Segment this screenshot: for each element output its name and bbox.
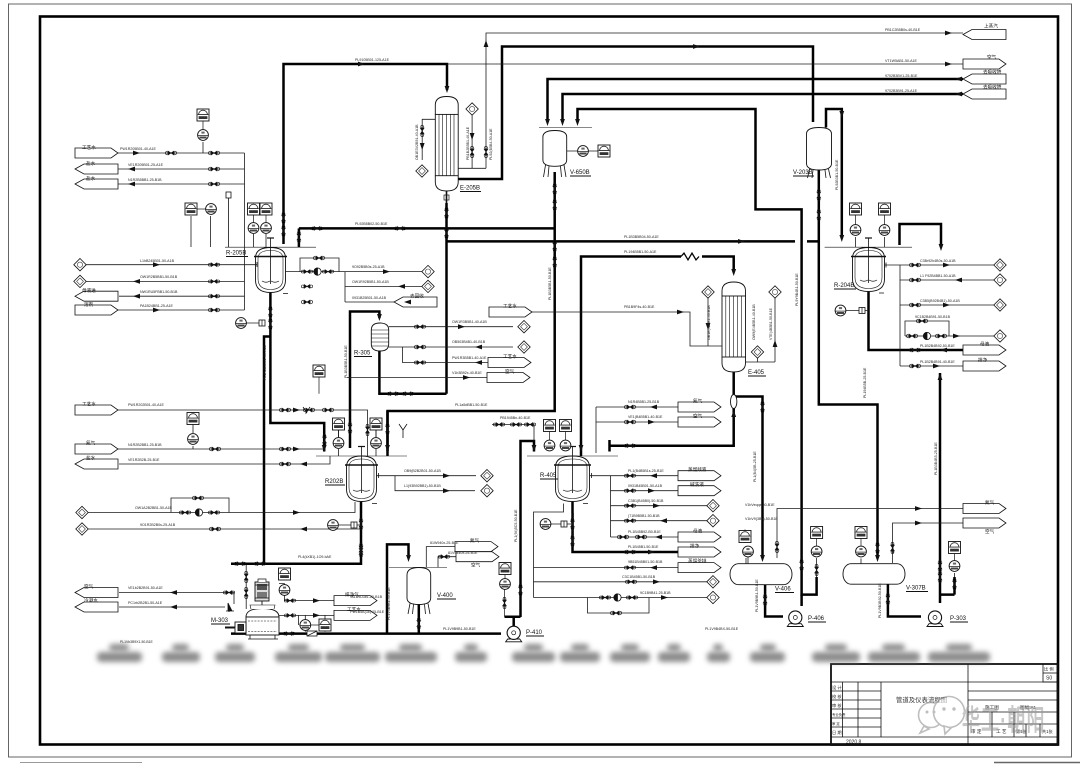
svg-text:VT1W5AB1-50-A1E: VT1W5AB1-50-A1E	[885, 59, 918, 63]
svg-text:OW1A2B2BB1-50-A1E: OW1A2B2BB1-50-A1E	[135, 506, 173, 510]
svg-text:P-410: P-410	[526, 630, 543, 636]
tags M-303 right	[334, 596, 377, 606]
horizontal drum V-307B	[843, 564, 905, 585]
svg-text:去吸收塔: 去吸收塔	[983, 69, 1002, 76]
wire P-410 jog	[505, 617, 521, 626]
wire R-405 bottom to tag	[573, 502, 679, 552]
tag 溶剂	[75, 305, 118, 315]
svg-text:PL1V4B9B1-40-B1E: PL1V4B9B1-40-B1E	[387, 587, 391, 620]
svg-text:工艺水: 工艺水	[82, 144, 96, 150]
instrument R-205B bottom	[236, 318, 247, 329]
svg-text:NW1RU5FBB1-50-B1B: NW1RU5FBB1-50-B1B	[140, 290, 178, 294]
instruments V-406	[743, 546, 754, 557]
wire P-406 instrument stack	[746, 558, 817, 577]
svg-text:VE1(B4B5B1-40-B1E: VE1(B4B5B1-40-B1E	[628, 415, 663, 419]
svg-text:PL92(B5B4-50-A1E: PL92(B5B4-50-A1E	[489, 128, 493, 160]
diamond R-405 drain line 1	[707, 576, 719, 588]
svg-text:PL1R2B5B01-50-A1E: PL1R2B5B01-50-A1E	[263, 344, 267, 380]
svg-text:L1hB245B01-50-A1B: L1hB245B01-50-A1B	[140, 259, 175, 263]
svg-text:排净: 排净	[690, 543, 700, 550]
wire R-204B bottoms to tag	[869, 292, 964, 350]
wire R202B right outlets	[377, 476, 477, 491]
svg-text:V1bVeqqx-50-B1E: V1bVeqqx-50-B1E	[745, 503, 775, 507]
wire y=228.4 line	[299, 227, 555, 230]
tick marks nozzles	[257, 262, 886, 504]
heat exchanger E-205B	[435, 97, 458, 204]
svg-text:V1b3B92x-40-B1E: V1b3B92x-40-B1E	[452, 371, 482, 375]
watermark	[919, 697, 1046, 738]
reactor R-205B	[254, 238, 287, 293]
horizontal drum V-406	[730, 564, 792, 585]
svg-text:PL1B2B4B91-40-B1E: PL1B2B4B91-40-B1E	[920, 360, 955, 364]
svg-text:V-307B: V-307B	[906, 586, 926, 592]
svg-text:审 核: 审 核	[832, 702, 842, 709]
expansion zigzag	[681, 253, 699, 260]
svg-text:OB503B4B1-40-B1B: OB503B4B1-40-B1B	[452, 340, 486, 344]
tag 去吸收塔2	[963, 89, 1006, 99]
svg-text:0931B25B01-50-A1B: 0931B25B01-50-A1B	[352, 296, 387, 300]
wire 工艺水 R202B line y=410	[118, 410, 368, 456]
wire R-204B bottom instrument	[846, 310, 869, 312]
wire V-307B bottom to P-303	[888, 583, 921, 617]
svg-text:PL1V9B4BX-50-B1E: PL1V9B4BX-50-B1E	[705, 627, 739, 631]
tag 回流	[75, 459, 118, 469]
tags R-405 right	[678, 471, 721, 481]
wire R-305 bottom to E-205B downcomer	[379, 351, 446, 394]
tag 工艺水 R305	[488, 358, 531, 368]
wire R202B feed riser from y411	[386, 411, 389, 456]
tag 去吸收塔1	[963, 74, 1006, 84]
wire left feed line3 y=184	[118, 183, 245, 185]
instrument M-303	[279, 568, 291, 580]
svg-text:蒸馏釜排: 蒸馏釜排	[688, 558, 707, 565]
svg-text:PA1B24BB1-25-A1E: PA1B24BB1-25-A1E	[140, 304, 173, 308]
wire E-205B left sample	[422, 119, 435, 160]
svg-text:氮气: 氮气	[693, 398, 703, 405]
wire R-205B right recycle loop	[286, 258, 423, 272]
vessel V-650B	[539, 128, 592, 178]
wire V-400 feed loop	[387, 544, 409, 633]
wire R-405 bottom instrument	[551, 523, 573, 525]
wire R-205B feed lines	[86, 264, 257, 266]
wire P-303 riser	[940, 373, 955, 603]
svg-text:V1bV9(3Bq)-50-B1E: V1bV9(3Bq)-50-B1E	[745, 517, 778, 521]
wire 工艺水 R-405 y=424.5	[492, 425, 534, 442]
svg-text:专业负责: 专业负责	[832, 712, 846, 717]
tags R-405 top	[678, 402, 721, 412]
fitting stub above R-205B	[226, 192, 231, 247]
tag 盐水	[75, 164, 118, 174]
svg-text:比 例: 比 例	[1044, 666, 1054, 673]
diamond R202B out right 2	[481, 485, 493, 497]
svg-text:PL9Y9B4B1-50-B1E: PL9Y9B4B1-50-B1E	[795, 273, 799, 306]
tag 上回收 top right	[963, 30, 1006, 40]
svg-text:PL1(B4B5B1-50-B1E: PL1(B4B5B1-50-B1E	[571, 512, 575, 547]
svg-text:9702B3BV1-25-B1E: 9702B3BV1-25-B1E	[885, 74, 918, 78]
instrument R-405 bottom	[540, 519, 551, 530]
svg-text:PL1(B4)5B-25-B1E: PL1(B4)5B-25-B1E	[753, 451, 757, 482]
svg-text:PL1V9B9B1-50-B1E: PL1V9B9B1-50-B1E	[443, 627, 476, 631]
tag 工艺水 R205B	[75, 148, 118, 158]
instruments R202B top	[333, 418, 345, 430]
svg-text:E-205B: E-205B	[460, 186, 480, 192]
svg-text:去回收: 去回收	[410, 293, 424, 300]
svg-text:工艺水: 工艺水	[503, 303, 517, 309]
wire branch to M-303	[264, 337, 270, 564]
svg-text:空气: 空气	[505, 368, 515, 374]
tag 空气 R305	[487, 373, 530, 383]
pump P-410	[506, 626, 522, 642]
wire V-406 bottom to P-406	[765, 584, 783, 617]
diamond feed2	[74, 275, 86, 287]
svg-text:PL92B3B1-50-B1E: PL92B3B1-50-B1E	[835, 159, 839, 190]
wire R-204B jumper	[900, 224, 942, 247]
wire V-400 bottom drop	[418, 604, 421, 634]
tags M-303	[75, 588, 118, 598]
svg-text:9B51B45B01-50-B1B: 9B51B45B01-50-B1B	[628, 560, 663, 564]
svg-text:蒸馏残液: 蒸馏残液	[688, 466, 707, 473]
check valve M-303 line	[226, 603, 234, 611]
svg-text:OB9(B2B2B01-50-A1B: OB9(B2B2B01-50-A1B	[404, 469, 441, 473]
svg-text:PL1B2B4B92-50-B1E: PL1B2B4B92-50-B1E	[920, 344, 955, 348]
svg-text:R-305: R-305	[354, 351, 371, 357]
instrument R202B bottom	[328, 520, 339, 531]
tags 氮气/空气 V-400	[455, 542, 498, 552]
wire y=241.4 long line	[447, 240, 819, 243]
svg-text:盐水: 盐水	[86, 455, 96, 461]
svg-text:E-405: E-405	[748, 370, 765, 376]
svg-text:N1R4B5B1-25-B1B: N1R4B5B1-25-B1B	[628, 400, 660, 404]
wire V-650B instruments	[567, 150, 598, 152]
svg-text:V-400: V-400	[437, 593, 453, 599]
svg-text:C3C1B45B1-50-B1B: C3C1B45B1-50-B1B	[622, 575, 656, 579]
wire 上回 pennant line to E-405	[532, 312, 722, 346]
diamond LI feed1	[74, 259, 86, 271]
wire V-203B vapor to R-204B	[826, 109, 842, 238]
bottom paper lines	[20, 762, 142, 764]
svg-text:PB1B2B5B1-40-A1E: PB1B2B5B1-40-A1E	[466, 126, 470, 160]
instruments V-307B	[856, 546, 867, 557]
svg-text:PB1B9F4s-40-B1E: PB1B9F4s-40-B1E	[624, 305, 655, 309]
reactor R202B	[345, 447, 378, 502]
svg-text:溶剂: 溶剂	[84, 301, 94, 308]
wire E-205B right nozzles	[458, 114, 486, 169]
svg-text:81V9440x-25-B1E: 81V9440x-25-B1E	[448, 551, 478, 555]
instrument cluster R-205B top-left	[185, 203, 197, 215]
tag 空气	[963, 59, 1006, 69]
instrument left of R202B line	[187, 413, 199, 425]
svg-text:OB1E3V2B91-40-A1B: OB1E3V2B91-40-A1B	[415, 124, 419, 160]
svg-text:PL1V9B9B1-50-B1E: PL1V9B9B1-50-B1E	[755, 579, 759, 612]
wire V-406 top instruments	[745, 530, 777, 564]
svg-text:V-406: V-406	[775, 587, 791, 593]
svg-text:空气: 空气	[987, 54, 997, 60]
wire P-410 discharge riser	[521, 441, 535, 617]
svg-text:9O92B5B0s-25-A1B: 9O92B5B0s-25-A1B	[352, 265, 385, 269]
svg-text:OB1E(4B5B1-40-B1B: OB1E(4B5B1-40-B1B	[707, 305, 711, 340]
instrument pair above R-205B	[248, 203, 260, 215]
wire feed y=449	[118, 448, 325, 450]
diamond R-405 drain line 2	[707, 591, 719, 603]
svg-text:V7E(4B5B1-50-B1E: V7E(4B5B1-50-B1E	[769, 307, 773, 340]
wire V-650B top line3 over to P-406	[578, 109, 817, 595]
svg-text:工艺水: 工艺水	[503, 353, 517, 359]
wire left feed line1 y=153	[118, 152, 245, 154]
wire y=464 line	[119, 456, 330, 464]
diamond y529	[76, 523, 88, 535]
svg-text:PL92B5B02-50-B1E: PL92B5B02-50-B1E	[355, 222, 388, 226]
svg-text:PL1B3B4B5-25-B1E: PL1B3B4B5-25-B1E	[934, 442, 938, 475]
svg-text:9C1B2B4B91-50-B1B: 9C1B2B4B91-50-B1B	[915, 315, 951, 319]
svg-text:PB1945Bn-40-B1E: PB1945Bn-40-B1E	[500, 416, 531, 420]
svg-text:上蒸汽: 上蒸汽	[984, 23, 998, 30]
reactor R-204B	[851, 238, 886, 292]
svg-text:母液: 母液	[693, 528, 703, 535]
svg-text:OW1R3B5B1-40-A1B: OW1R3B5B1-40-A1B	[452, 320, 487, 324]
svg-text:OW1R92B5B1-50-A1B: OW1R92B5B1-50-A1B	[352, 280, 389, 284]
wire R-204B outlets	[885, 265, 995, 366]
svg-text:PL1V9B3B92-50-B1E: PL1V9B3B92-50-B1E	[878, 583, 882, 618]
svg-text:氮气: 氮气	[985, 499, 995, 506]
svg-text:氮气: 氮气	[470, 537, 480, 544]
instruments P-406 riser	[811, 527, 823, 539]
instrument near V-400	[499, 563, 511, 575]
svg-text:P-406: P-406	[808, 616, 825, 622]
wire instrument stems R-204B	[856, 237, 885, 247]
svg-text:氮气: 氮气	[86, 440, 96, 447]
wire y=529 line	[88, 528, 361, 530]
svg-text:N1R2B2BB1-25-B1B: N1R2B2BB1-25-B1B	[128, 443, 162, 447]
svg-text:PL1B3B5B1-50-B1E: PL1B3B5B1-50-B1E	[344, 345, 348, 378]
wire M-303 bottom discharge to P-410	[231, 632, 501, 635]
wire E-205B bottoms to V-203B feed	[458, 47, 813, 180]
svg-text:校 核: 校 核	[832, 693, 842, 700]
svg-text:9702B3B91-25-A1E: 9702B3B91-25-A1E	[885, 89, 918, 93]
svg-text:R-405: R-405	[540, 473, 557, 479]
wire top vent line y=33	[486, 33, 963, 150]
instruments R-204B top	[850, 203, 862, 215]
svg-text:C3B1(B45B0)-50-B1B: C3B1(B45B0)-50-B1B	[628, 499, 664, 503]
wire M-303 top feed stub	[264, 562, 361, 565]
wire instrument stems R202B	[193, 424, 376, 456]
wire R-205B bottoms	[270, 293, 324, 452]
svg-text:S0: S0	[1046, 676, 1052, 682]
wire y=512.5 line with loop	[88, 498, 355, 513]
svg-text:VE1b2B2B91-50-A1E: VE1b2B2B91-50-A1E	[128, 586, 163, 590]
diamond R205B out1	[422, 265, 434, 277]
diamond E205B right top	[466, 103, 478, 115]
blurred bottom annotation strip	[109, 644, 129, 651]
svg-text:PL194B5B-25-B1E: PL194B5B-25-B1E	[863, 367, 867, 398]
svg-text:空气: 空气	[693, 413, 703, 419]
wire V-203B drain to V-307B	[819, 170, 878, 558]
diamond R202B out right 1	[481, 470, 493, 482]
reactor R-405	[554, 447, 591, 502]
wire instrument stems R205B	[191, 142, 266, 247]
vessel V-203B	[807, 128, 832, 179]
wire R202B bottom instrument	[339, 524, 361, 526]
svg-text:OW1R2B5BB1-50-B1B: OW1R2B5BB1-50-B1B	[140, 275, 178, 279]
svg-text:华工·朝阳: 华工·朝阳	[962, 703, 1046, 737]
thick line arrows	[445, 86, 450, 93]
wire left feed line2 y=169	[118, 168, 245, 170]
svg-text:空气: 空气	[84, 583, 94, 589]
small column R-305	[371, 323, 388, 351]
diamonds R305 lines	[518, 321, 530, 333]
tag 上回 to E405	[489, 307, 532, 317]
svg-text:碱洗液: 碱洗液	[690, 481, 704, 488]
diamond E205B left	[416, 165, 428, 177]
svg-text:PL194B5B1-50-A1E: PL194B5B1-50-A1E	[624, 250, 657, 254]
wire 氮气 drum lines	[777, 509, 963, 564]
pump P-406	[787, 611, 803, 627]
svg-text:PL9105B01-125-A1E: PL9105B01-125-A1E	[355, 58, 390, 62]
wire R202B bottom to M-303 line	[231, 502, 361, 564]
svg-text:9O1R2B2B0s-25-A1B: 9O1R2B2B0s-25-A1B	[140, 523, 176, 527]
wire V-307B top instruments	[861, 544, 893, 564]
instruments R-405 top	[544, 420, 556, 432]
wire V-650B top line 1 to tag	[548, 79, 964, 122]
svg-text:母液: 母液	[980, 341, 990, 348]
wire E-405 branch to V-406	[734, 397, 763, 559]
svg-text:空气: 空气	[985, 528, 995, 534]
tag 氮气 R202B	[75, 444, 118, 454]
svg-text:M-303: M-303	[211, 618, 229, 624]
instrument square below R-305	[313, 365, 325, 377]
svg-text:审 定: 审 定	[832, 721, 840, 726]
wire R-305 side lines	[347, 327, 513, 378]
tag 母液进	[75, 291, 118, 301]
wire E-405 side lines	[708, 292, 775, 362]
wire R-405 pennant lines	[534, 407, 708, 613]
svg-text:PW1R205B01-40-A1E: PW1R205B01-40-A1E	[120, 147, 157, 151]
diamonds/tags R-204B right	[994, 259, 1006, 271]
wire V-650B top line 2 to tag	[563, 94, 964, 122]
svg-text:日 期: 日 期	[832, 730, 842, 736]
inline trap on E-405 bottom line	[731, 395, 737, 409]
svg-text:PW1B5B(3b)-25-B1E: PW1B5B(3b)-25-B1E	[350, 610, 385, 614]
svg-text:2020.8: 2020.8	[846, 740, 862, 746]
wire E-205B bottom drain down	[445, 203, 448, 394]
wire left header drop x=244.5	[244, 153, 246, 310]
svg-text:V-203B: V-203B	[793, 170, 813, 176]
svg-text:PL1(B4B5B1s-25-B1E: PL1(B4B5B1s-25-B1E	[628, 469, 664, 473]
instruments P-303 riser	[949, 542, 961, 554]
svg-text:VE1R2B2B-25-B1E: VE1R2B2B-25-B1E	[128, 458, 160, 462]
svg-text:PW1R202B01-40-A1E: PW1R202B01-40-A1E	[128, 403, 165, 407]
diamond R205B out2	[422, 280, 434, 292]
svg-text:空气: 空气	[471, 562, 481, 568]
wire R-405 vapor to E-405 with expansion loop	[581, 257, 734, 457]
wire misc crossing breaks	[446, 227, 448, 229]
svg-text:PL1B3B5B1-50-B1E: PL1B3B5B1-50-B1E	[548, 267, 552, 300]
wire riser R-205B to y228 header	[298, 228, 301, 247]
Y strainer R202B	[399, 424, 407, 438]
wire E-405 bottom to tee	[610, 372, 734, 452]
svg-text:去吸收塔: 去吸收塔	[983, 84, 1002, 91]
wire M-303 lines	[119, 565, 334, 632]
svg-text:盐水: 盐水	[86, 160, 96, 166]
svg-text:设 计: 设 计	[832, 684, 842, 691]
svg-text:VE1R205B01-25-A1E: VE1R205B01-25-A1E	[128, 163, 164, 167]
wire thin y=64 to tag2	[447, 63, 963, 65]
tag 4BBh	[394, 297, 437, 307]
svg-text:V-650B: V-650B	[570, 170, 590, 176]
diamond y512	[76, 506, 88, 518]
wire R-305 feed from R202B riser	[350, 312, 379, 449]
wire P-303 instrument stack	[954, 573, 956, 577]
svg-text:0931B45B01-50-A1B: 0931B45B01-50-A1B	[628, 484, 663, 488]
svg-text:81W940x-25-B1E: 81W940x-25-B1E	[430, 541, 459, 545]
wire V-400 top line	[425, 546, 427, 548]
svg-text:R-205B: R-205B	[226, 251, 246, 257]
wire 氮气/空气 V-400	[426, 547, 456, 568]
tag 工艺水 R202B	[75, 405, 118, 415]
tags 氮气 bottom right	[963, 504, 1006, 514]
instrument V-650B	[578, 146, 589, 157]
svg-text:P-303: P-303	[950, 616, 967, 622]
svg-text:L1(93B92BB1)-50-B1B: L1(93B92BB1)-50-B1B	[404, 484, 441, 488]
svg-text:PL4(kXB1)-1O9-bAE: PL4(kXB1)-1O9-bAE	[298, 555, 332, 559]
filter dryer M-303	[225, 579, 279, 639]
svg-text:9C1B9B41-25-B1B: 9C1B9B41-25-B1B	[640, 591, 671, 595]
wire R-205B overhead to E-205B	[284, 64, 448, 244]
instrument R-204B bottom	[835, 305, 846, 316]
svg-text:OW9(E4B5B1-40-B1B: OW9(E4B5B1-40-B1B	[752, 304, 756, 340]
svg-text:L1 F92B4BB1-50-A1B: L1 F92B4BB1-50-A1B	[920, 274, 956, 278]
wire P-406 drop	[800, 595, 803, 606]
svg-text:C3B5(B92B4B1)-50-A1B: C3B5(B92B4B1)-50-A1B	[920, 299, 960, 303]
tag 盐水回	[75, 179, 118, 189]
wire V-650B downcomer to R202B	[388, 172, 555, 451]
svg-text:PL1B3B5B04-50-A1E: PL1B3B5B04-50-A1E	[624, 235, 659, 239]
svg-text:母液进: 母液进	[82, 287, 96, 294]
svg-text:R202B: R202B	[325, 479, 343, 485]
svg-text:C3Br92h4B0s-50-A1B: C3Br92h4B0s-50-A1B	[920, 259, 956, 263]
svg-text:排净: 排净	[978, 357, 988, 364]
svg-text:工艺水: 工艺水	[82, 401, 96, 407]
svg-text:PB1C2B5B0s-40-B1E: PB1C2B5B0s-40-B1E	[885, 28, 921, 32]
pump P-303	[927, 611, 943, 627]
svg-text:PW1R3B5B1-40-A1E: PW1R3B5B1-40-A1E	[452, 356, 487, 360]
vessel V-400	[389, 567, 447, 614]
svg-text:PC1rb2B2B1-50-A1E: PC1rb2B2B1-50-A1E	[128, 601, 163, 605]
svg-text:R-204B: R-204B	[834, 283, 854, 289]
diamonds E405	[702, 286, 714, 298]
svg-text:PL1B45B1-50-B1E: PL1B45B1-50-B1E	[628, 545, 659, 549]
svg-text:PL1B45B92-B0-B1E: PL1B45B92-B0-B1E	[628, 530, 661, 534]
svg-text:PL1(94)5C5-50-B1E: PL1(94)5C5-50-B1E	[514, 509, 518, 542]
svg-text:(71B9B5B1-50-B1B: (71B9B5B1-50-B1B	[628, 514, 660, 518]
heat exchanger E-405	[722, 282, 746, 372]
svg-text:N1R2B5BB1-25-B1B: N1R2B5BB1-25-B1B	[128, 178, 162, 182]
svg-text:9s1B9D3b1-25-B1B: 9s1B9D3b1-25-B1B	[350, 595, 383, 599]
svg-text:盐水: 盐水	[86, 175, 96, 181]
rotated labels along vertical lines	[263, 124, 938, 620]
svg-text:PL1a5dBB1-50-B1E: PL1a5dBB1-50-B1E	[455, 403, 488, 407]
